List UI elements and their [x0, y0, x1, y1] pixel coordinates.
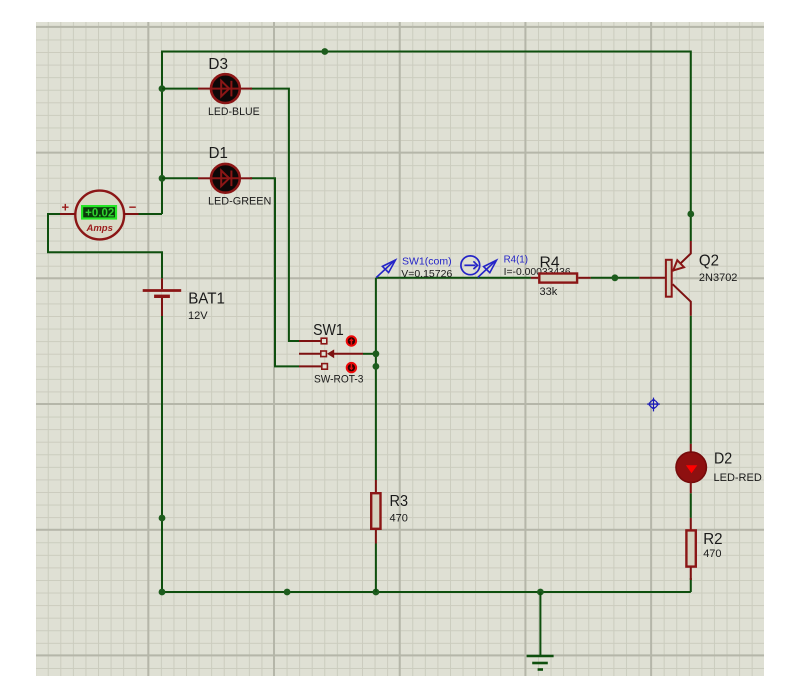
wire: D2 cathode to R2: [690, 493, 692, 518]
wire: Q2 collector down to D2: [690, 316, 692, 444]
svg-text:SW-ROT-3: SW-ROT-3: [314, 374, 363, 386]
current probe on base wire: [461, 256, 480, 275]
cursor crosshair marker: [647, 398, 660, 412]
svg-text:LED-GREEN: LED-GREEN: [208, 196, 271, 208]
wire: SW1 common to vertical net: [363, 353, 376, 355]
ammeter display: [82, 206, 116, 218]
svg-text:V=0.15726: V=0.15726: [401, 268, 452, 280]
battery BAT1 long plate: [143, 289, 182, 292]
transistor Q2 collector: [673, 284, 691, 316]
LED D2 body: [676, 452, 706, 482]
switch SW1 bottom contact lead: [299, 365, 322, 367]
node: D1 anode junction: [159, 175, 166, 182]
ground symbol: [527, 592, 554, 670]
svg-text:470: 470: [703, 548, 721, 560]
switch SW1 middle contact square: [321, 351, 327, 357]
wire: R4 right to Q2 base: [591, 277, 640, 279]
wire: ammeter + terminal loop to battery top: [48, 214, 162, 278]
switch SW1 up button: [347, 336, 356, 345]
wire: R2 bottom to rail: [690, 578, 692, 592]
svg-text:12V: 12V: [188, 310, 208, 322]
transistor Q2 emitter: [673, 241, 691, 271]
switch SW1 bottom contact square: [322, 364, 328, 370]
svg-text:2N3702: 2N3702: [699, 272, 738, 284]
node: join dot on battery-ground wire: [159, 515, 166, 522]
svg-text:R4(1): R4(1): [504, 253, 528, 265]
wire: probe row to R4 left: [376, 277, 531, 279]
svg-text:LED-RED: LED-RED: [714, 472, 762, 484]
svg-text:Q2: Q2: [699, 252, 719, 269]
svg-text:Amps: Amps: [85, 223, 112, 234]
svg-text:+0.02: +0.02: [85, 205, 114, 219]
LED D3 pins: [198, 88, 212, 90]
wire: ammeter - terminal to left riser: [139, 213, 163, 215]
LED D1 pins: [198, 177, 212, 179]
svg-text:R3: R3: [390, 493, 409, 510]
switch SW1 down button: [347, 363, 356, 372]
ammeter right pin stub: [124, 213, 138, 215]
wire: battery negative down to bottom rail: [161, 316, 163, 592]
svg-text:LED-BLUE: LED-BLUE: [208, 106, 260, 118]
node: R3 bottom junction: [373, 589, 380, 596]
resistor R2 body: [686, 530, 695, 566]
resistor R3 bottom lead: [375, 530, 377, 544]
svg-text:BAT1: BAT1: [188, 290, 225, 307]
node: bottom rail join dot: [284, 589, 291, 596]
wire: vertical net from probe row through SW1 to R3: [375, 278, 377, 480]
svg-text:R2: R2: [703, 531, 722, 548]
battery BAT1 short plate: [154, 295, 170, 298]
wire: D3 cathode to SW1 top contact: [250, 89, 299, 341]
svg-text:R4: R4: [540, 254, 560, 271]
svg-text:SW1(com): SW1(com): [402, 255, 452, 267]
svg-text:470: 470: [390, 513, 408, 525]
wire: D3 anode from left riser: [162, 88, 198, 90]
svg-text:33k: 33k: [540, 286, 558, 298]
svg-text:SW1: SW1: [313, 322, 344, 339]
wire: bottom ground rail: [162, 591, 691, 593]
ammeter AM1 body: [75, 191, 124, 240]
switch SW1 wiper arrow: [332, 353, 363, 355]
svg-text:−: −: [129, 200, 137, 215]
node: base wire join dot: [612, 274, 619, 281]
svg-text:+: +: [62, 200, 70, 215]
svg-text:D3: D3: [208, 56, 228, 73]
voltage probe R4(1): [478, 260, 497, 277]
LED D1 body: [211, 164, 240, 193]
battery BAT1 top lead: [161, 278, 163, 289]
LED D3 body: [211, 74, 240, 103]
resistor R3 body: [371, 493, 380, 529]
voltage probe SW1(com): [376, 260, 395, 278]
resistor R3 top lead: [375, 480, 377, 492]
wire: R3 bottom to rail: [375, 544, 377, 593]
LED D2 top lead: [690, 444, 692, 453]
transistor Q2 bar: [666, 260, 672, 297]
resistor R4 left lead: [531, 277, 538, 279]
resistor R2 top lead: [690, 518, 692, 530]
node: Q2 emitter wire join dot: [687, 211, 694, 218]
transistor Q2 base lead: [639, 277, 665, 279]
svg-text:D2: D2: [714, 450, 732, 467]
node: SW1 common junction: [373, 350, 380, 357]
node: ground junction: [537, 589, 544, 596]
resistor R4 body: [539, 274, 577, 283]
switch SW1 top contact square: [321, 338, 327, 344]
resistor R4 right lead: [578, 277, 590, 279]
wire: left riser / top rail / right drop to Q2 emitter: [162, 52, 691, 242]
wire: D1 anode from left riser: [162, 177, 198, 179]
ammeter left pin stub: [60, 213, 75, 215]
resistor R2 bottom lead: [690, 567, 692, 580]
battery BAT1 bottom lead: [161, 298, 163, 316]
node: join dot below SW1 common: [373, 363, 380, 370]
transistor Q2 emitter arrow (PNP): [673, 260, 684, 270]
node: bottom rail left corner dot: [159, 589, 166, 596]
LED D2 bottom lead: [690, 482, 692, 493]
node: top rail join dot: [321, 48, 328, 55]
svg-text:D1: D1: [209, 145, 228, 162]
switch SW1 middle contact lead (unconnected): [299, 353, 321, 355]
switch SW1 top contact lead: [299, 340, 322, 342]
node: D3 anode junction: [159, 85, 166, 92]
wire: D1 cathode to SW1 bottom contact: [250, 178, 299, 366]
